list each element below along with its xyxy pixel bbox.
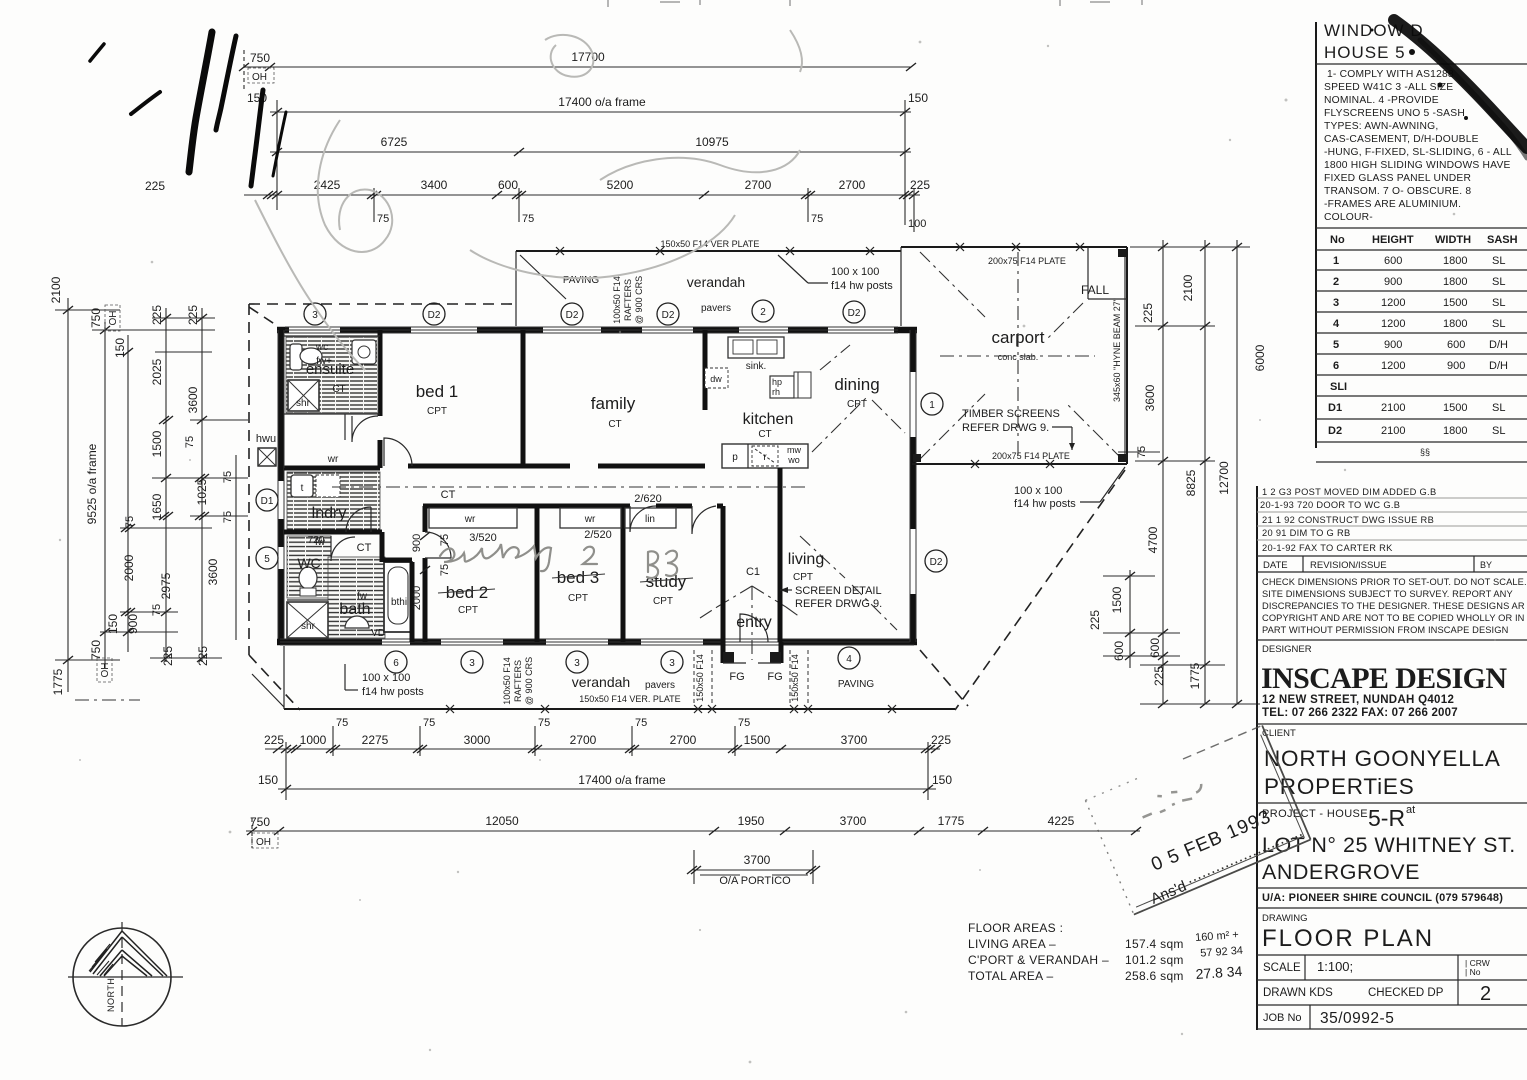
svg-text:lndry: lndry <box>312 505 347 522</box>
svg-text:f14 hw posts: f14 hw posts <box>1014 498 1076 510</box>
svg-text:75: 75 <box>538 717 550 729</box>
svg-text:@ 900 CRS: @ 900 CRS <box>634 276 644 324</box>
svg-text:O/A PORTICO: O/A PORTICO <box>719 875 791 887</box>
svg-text:750: 750 <box>250 51 270 65</box>
svg-text:75: 75 <box>439 564 451 576</box>
svg-text:SL: SL <box>1492 402 1505 414</box>
svg-text:| No: | No <box>1465 967 1481 977</box>
svg-text:160 m² +: 160 m² + <box>1195 929 1239 944</box>
svg-text:COPYRIGHT AND ARE NOT TO BE CO: COPYRIGHT AND ARE NOT TO BE COPIED WHOLL… <box>1262 613 1525 623</box>
svg-text:6: 6 <box>393 658 399 669</box>
svg-text:1- COMPLY WITH AS1288: 1- COMPLY WITH AS1288 <box>1327 69 1454 80</box>
svg-text:C'PORT & VERANDAH –: C'PORT & VERANDAH – <box>968 953 1109 967</box>
svg-text:150: 150 <box>258 773 278 787</box>
svg-text:20-1-93 720 DOOR TO WC: 20-1-93 720 DOOR TO WC G.B <box>1260 500 1400 510</box>
svg-text:1500: 1500 <box>150 430 164 457</box>
svg-text:12700: 12700 <box>1217 461 1231 495</box>
svg-text:SASH: SASH <box>1487 234 1518 246</box>
svg-text:2/520: 2/520 <box>584 529 612 541</box>
svg-text:SL: SL <box>1492 425 1505 437</box>
svg-text:10975: 10975 <box>695 135 729 149</box>
svg-text:bath: bath <box>339 601 370 618</box>
svg-text:5: 5 <box>264 554 270 565</box>
svg-text:lin: lin <box>645 514 655 525</box>
svg-text:FALL: FALL <box>1081 283 1109 297</box>
svg-text:3600: 3600 <box>1143 384 1157 411</box>
svg-text:1500: 1500 <box>744 733 771 747</box>
svg-text:SL: SL <box>1492 297 1505 309</box>
svg-text:t: t <box>301 483 304 494</box>
svg-text:CT: CT <box>332 384 345 395</box>
svg-text:600: 600 <box>1447 339 1465 351</box>
svg-text:hp: hp <box>772 377 782 387</box>
svg-text:wr: wr <box>464 514 476 525</box>
svg-text:shr: shr <box>301 621 316 632</box>
svg-text:4: 4 <box>1333 318 1340 330</box>
svg-text:fw+: fw+ <box>316 356 332 367</box>
svg-text:@ 900 CRS: @ 900 CRS <box>524 657 534 705</box>
svg-text:225: 225 <box>145 179 165 193</box>
svg-text:75: 75 <box>423 717 435 729</box>
svg-text:Ans'd: Ans'd <box>1148 878 1189 908</box>
svg-text:kitchen: kitchen <box>743 411 794 428</box>
svg-text:CPT: CPT <box>847 399 867 410</box>
svg-text:1200: 1200 <box>1381 318 1405 330</box>
svg-text:1800: 1800 <box>1443 255 1467 267</box>
svg-text:-HUNG, F-FIXED, SL-SLIDING, 6: -HUNG, F-FIXED, SL-SLIDING, 6 - ALL <box>1324 147 1512 158</box>
svg-text:mw: mw <box>787 445 801 455</box>
svg-text:wc: wc <box>315 342 328 353</box>
svg-text:CPT: CPT <box>653 596 673 607</box>
svg-text:100x50 F14: 100x50 F14 <box>502 657 512 705</box>
svg-text:3700: 3700 <box>744 853 771 867</box>
svg-text:100 x 100: 100 x 100 <box>831 266 879 278</box>
svg-text:3/520: 3/520 <box>469 532 497 544</box>
svg-text:150: 150 <box>113 338 127 358</box>
svg-text:PART WITHOUT PERMISSION FROM: PART WITHOUT PERMISSION FROM INSCAPE DES… <box>1262 625 1508 635</box>
svg-text:3700: 3700 <box>840 814 867 828</box>
svg-text:258.6 sqm: 258.6 sqm <box>1125 969 1184 983</box>
svg-text:150x50 F14 VER. PLATE: 150x50 F14 VER. PLATE <box>579 694 680 704</box>
svg-text:150x50 F14: 150x50 F14 <box>695 654 705 702</box>
svg-text:3400: 3400 <box>421 178 448 192</box>
svg-text:225: 225 <box>196 646 210 666</box>
svg-text:20-1-92 FAX TO CARTER: 20-1-92 FAX TO CARTER RK <box>1262 543 1393 553</box>
svg-text:2100: 2100 <box>1381 402 1405 414</box>
svg-text:SL: SL <box>1492 318 1505 330</box>
svg-text:1 2 G3 POST MOVED DIM ADDED: 1 2 G3 POST MOVED DIM ADDED G.B <box>1262 487 1436 497</box>
svg-text:family: family <box>591 394 636 413</box>
svg-text:D1: D1 <box>261 496 274 507</box>
svg-text:-FRAMES ARE ALUMINIUM.: -FRAMES ARE ALUMINIUM. <box>1324 199 1461 210</box>
svg-text:HEIGHT: HEIGHT <box>1372 234 1414 246</box>
svg-text:SLI: SLI <box>1330 381 1347 393</box>
svg-text:at: at <box>1406 804 1415 816</box>
svg-text:2700: 2700 <box>570 733 597 747</box>
svg-text:sink.: sink. <box>746 361 767 372</box>
svg-text:225: 225 <box>1141 303 1155 323</box>
svg-text:verandah: verandah <box>687 274 745 290</box>
svg-text:HOUSE 5: HOUSE 5 <box>1324 43 1406 62</box>
svg-text:D2: D2 <box>930 557 943 568</box>
svg-text:1800: 1800 <box>1443 425 1467 437</box>
svg-text:DRAWN KDS: DRAWN KDS <box>1263 987 1333 999</box>
svg-text:verandah: verandah <box>572 674 630 690</box>
svg-text:LIVING AREA –: LIVING AREA – <box>968 937 1056 951</box>
svg-text:1800 HIGH SLIDING WINDOWS HAV: 1800 HIGH SLIDING WINDOWS HAVE <box>1324 160 1511 171</box>
svg-text:6: 6 <box>1333 360 1339 372</box>
svg-text:3700: 3700 <box>841 733 868 747</box>
svg-text:pavers: pavers <box>645 680 675 691</box>
svg-text:U/A: PIONEER SHIRE COUNCIL (07: U/A: PIONEER SHIRE COUNCIL (079 579648) <box>1262 892 1503 904</box>
svg-text:TYPES: AWN-AWNING,: TYPES: AWN-AWNING, <box>1324 121 1438 132</box>
svg-text:21 1 92 CONSTRUCT DWG ISSUE: 21 1 92 CONSTRUCT DWG ISSUE RB <box>1262 515 1434 525</box>
svg-text:900: 900 <box>1447 360 1465 372</box>
svg-text:600: 600 <box>1112 641 1126 661</box>
svg-text:D2: D2 <box>662 310 675 321</box>
svg-text:OH: OH <box>252 72 267 83</box>
svg-text:CPT: CPT <box>793 572 813 583</box>
svg-text:225: 225 <box>931 733 951 747</box>
svg-text:8825: 8825 <box>1184 469 1198 496</box>
svg-text:3600: 3600 <box>186 386 200 413</box>
svg-text:6000: 6000 <box>1253 344 1267 371</box>
svg-text:100 x 100: 100 x 100 <box>362 672 410 684</box>
svg-text:fw: fw <box>357 591 368 602</box>
svg-text:D1: D1 <box>1328 402 1342 414</box>
svg-text:DATE: DATE <box>1263 560 1288 571</box>
svg-text:2000: 2000 <box>122 554 136 581</box>
svg-text:entry: entry <box>736 614 772 631</box>
svg-text:CHECK DIMENSIONS PRIOR TO SET-: CHECK DIMENSIONS PRIOR TO SET-OUT. DO NO… <box>1262 577 1527 587</box>
svg-text:900: 900 <box>1384 339 1402 351</box>
svg-text:9525 o/a frame: 9525 o/a frame <box>85 443 99 524</box>
svg-text:1025: 1025 <box>195 478 209 505</box>
svg-text:D2: D2 <box>848 308 861 319</box>
svg-text:17400 o/a frame: 17400 o/a frame <box>558 95 646 109</box>
svg-text:2000: 2000 <box>411 586 423 610</box>
svg-text:225: 225 <box>1088 610 1102 630</box>
svg-text:D/H: D/H <box>1489 360 1508 372</box>
svg-text:REFER DRWG 9.: REFER DRWG 9. <box>795 598 882 610</box>
svg-text:BY: BY <box>1480 560 1492 570</box>
svg-text:SPEED W41C 3 -ALL SIZE: SPEED W41C 3 -ALL SIZE <box>1324 82 1453 93</box>
svg-text:17700: 17700 <box>571 50 605 64</box>
svg-text:NOMINAL. 4 -PROVIDE: NOMINAL. 4 -PROVIDE <box>1324 95 1439 106</box>
svg-text:2: 2 <box>760 307 766 318</box>
svg-text:225: 225 <box>1152 666 1166 686</box>
svg-text:75: 75 <box>1136 446 1148 458</box>
svg-text:PAVING: PAVING <box>563 275 600 286</box>
svg-text:WIDTH: WIDTH <box>1435 234 1471 246</box>
svg-text:FLOOR PLAN: FLOOR PLAN <box>1262 925 1434 952</box>
svg-text:CT: CT <box>441 489 456 501</box>
svg-text:COLOUR-: COLOUR- <box>1324 212 1373 223</box>
svg-text:150x50 F14: 150x50 F14 <box>790 654 800 702</box>
svg-text:100x50 F14: 100x50 F14 <box>612 276 622 324</box>
svg-text:RAFTERS: RAFTERS <box>623 279 633 321</box>
svg-text:225: 225 <box>264 733 284 747</box>
svg-text:1: 1 <box>929 400 935 411</box>
svg-text:75: 75 <box>635 717 647 729</box>
svg-text:2700: 2700 <box>670 733 697 747</box>
svg-text:2025: 2025 <box>150 358 164 385</box>
svg-text:150: 150 <box>932 773 952 787</box>
svg-text:75: 75 <box>811 213 823 225</box>
svg-text:2100: 2100 <box>49 276 63 303</box>
svg-text:100 x 100: 100 x 100 <box>1014 485 1062 497</box>
svg-text:D2: D2 <box>1328 425 1342 437</box>
svg-text:200x75 F14 PLATE: 200x75 F14 PLATE <box>992 451 1070 461</box>
svg-text:750: 750 <box>250 815 270 829</box>
svg-text:225: 225 <box>150 305 164 325</box>
svg-text:2: 2 <box>1333 276 1339 288</box>
svg-text:75: 75 <box>377 213 389 225</box>
svg-text:900: 900 <box>411 534 423 552</box>
svg-text:4: 4 <box>846 654 852 665</box>
svg-text:75: 75 <box>222 511 234 523</box>
svg-text:4225: 4225 <box>1048 814 1075 828</box>
svg-text:PROJECT - HOUSE: PROJECT - HOUSE <box>1262 808 1368 820</box>
svg-text:75: 75 <box>439 534 451 546</box>
svg-text:pavers: pavers <box>701 303 731 314</box>
svg-text:FG: FG <box>767 671 782 683</box>
svg-text:1500: 1500 <box>1110 586 1124 613</box>
svg-text:1650: 1650 <box>150 493 164 520</box>
svg-text:DRAWING: DRAWING <box>1262 913 1308 924</box>
svg-text:f14 hw posts: f14 hw posts <box>362 686 424 698</box>
svg-text:RAFTERS: RAFTERS <box>513 660 523 702</box>
svg-text:75: 75 <box>151 604 163 616</box>
svg-text:3: 3 <box>469 658 475 669</box>
svg-text:2100: 2100 <box>1181 274 1195 301</box>
svg-text:D2: D2 <box>428 310 441 321</box>
svg-text:150: 150 <box>106 614 120 634</box>
svg-text:wr: wr <box>584 514 596 525</box>
svg-text:900: 900 <box>126 614 140 634</box>
svg-text:REVISION/ISSUE: REVISION/ISSUE <box>1310 560 1387 571</box>
svg-text:1800: 1800 <box>1443 318 1467 330</box>
svg-text:CT: CT <box>608 419 621 430</box>
svg-text:TOTAL AREA –: TOTAL AREA – <box>968 969 1053 983</box>
svg-text:CT: CT <box>357 542 372 554</box>
svg-text:600: 600 <box>1148 638 1162 658</box>
svg-text:CAS-CASEMENT, D/H-DOUBLE: CAS-CASEMENT, D/H-DOUBLE <box>1324 134 1479 145</box>
svg-text:225: 225 <box>910 178 930 192</box>
svg-text:75: 75 <box>336 717 348 729</box>
svg-text:1775: 1775 <box>938 814 965 828</box>
svg-text:bthi: bthi <box>391 597 407 608</box>
svg-text:3: 3 <box>1333 297 1339 309</box>
svg-text:1800: 1800 <box>1443 276 1467 288</box>
svg-text:3: 3 <box>574 658 580 669</box>
svg-text:0 5 FEB 1993: 0 5 FEB 1993 <box>1148 806 1274 875</box>
svg-text:5: 5 <box>1333 339 1339 351</box>
svg-text:100: 100 <box>908 218 926 230</box>
svg-text:12 NEW STREET, NUNDAH Q4012: 12 NEW STREET, NUNDAH Q4012 <box>1262 694 1454 706</box>
svg-text:OH: OH <box>256 837 271 848</box>
svg-text:CHECKED DP: CHECKED DP <box>1368 987 1444 999</box>
svg-text:DESIGNER: DESIGNER <box>1262 644 1312 655</box>
svg-text:TRANSOM. 7 O- OBSCURE. 8: TRANSOM. 7 O- OBSCURE. 8 <box>1324 186 1471 197</box>
svg-text:2275: 2275 <box>362 733 389 747</box>
svg-text:TEL: 07 266 2322 FAX: 07 266: TEL: 07 266 2322 FAX: 07 266 2007 <box>1262 707 1458 719</box>
svg-text:TIMBER SCREENS: TIMBER SCREENS <box>962 408 1060 420</box>
svg-text:1775: 1775 <box>1188 662 1202 689</box>
svg-text:200x75 F14 PLATE: 200x75 F14 PLATE <box>988 256 1066 266</box>
svg-text:REFER DRWG 9.: REFER DRWG 9. <box>962 422 1049 434</box>
svg-text:living: living <box>788 551 824 568</box>
svg-text:1:100;: 1:100; <box>1317 959 1353 974</box>
svg-text:1200: 1200 <box>1381 360 1405 372</box>
svg-text:900: 900 <box>1384 276 1402 288</box>
svg-text:CPT: CPT <box>458 605 478 616</box>
svg-text:3000: 3000 <box>464 733 491 747</box>
svg-text:5-R: 5-R <box>1368 805 1405 831</box>
svg-text:750: 750 <box>89 640 103 660</box>
svg-text:FLYSCREENS UNO 5 -SASH: FLYSCREENS UNO 5 -SASH <box>1324 108 1465 119</box>
svg-text:D/H: D/H <box>1489 339 1508 351</box>
svg-text:157.4 sqm: 157.4 sqm <box>1125 937 1184 951</box>
svg-text:2: 2 <box>1480 983 1491 1005</box>
svg-text:dw: dw <box>710 374 722 384</box>
svg-text:2700: 2700 <box>745 178 772 192</box>
svg-text:rh: rh <box>772 387 780 397</box>
svg-text:WC: WC <box>297 555 320 571</box>
svg-text:600: 600 <box>498 178 518 192</box>
svg-text:bed 1: bed 1 <box>416 382 459 401</box>
svg-text:75: 75 <box>184 436 196 448</box>
svg-text:No: No <box>1330 234 1345 246</box>
svg-text:3: 3 <box>669 658 675 669</box>
svg-text:NORTH GOONYELLA: NORTH GOONYELLA <box>1264 746 1501 771</box>
svg-text:75: 75 <box>124 516 136 528</box>
svg-text:1200: 1200 <box>1381 297 1405 309</box>
svg-text:57 92 34: 57 92 34 <box>1200 945 1244 960</box>
svg-text:2975: 2975 <box>159 572 173 599</box>
svg-text:ANDERGROVE: ANDERGROVE <box>1262 860 1420 884</box>
svg-text:150: 150 <box>908 91 928 105</box>
svg-text:2/620: 2/620 <box>634 493 662 505</box>
svg-text:345x60 "HYNE BEAM 27": 345x60 "HYNE BEAM 27" <box>1112 298 1122 402</box>
svg-text:720: 720 <box>308 535 325 546</box>
svg-text:SL: SL <box>1492 276 1505 288</box>
svg-text:4700: 4700 <box>1146 526 1160 553</box>
svg-text:INSCAPE DESIGN: INSCAPE DESIGN <box>1261 662 1507 695</box>
svg-text:1: 1 <box>1333 255 1339 267</box>
svg-text:p: p <box>732 452 738 463</box>
svg-text:wo: wo <box>787 455 800 465</box>
svg-text:SCREEN DETAIL: SCREEN DETAIL <box>795 585 882 597</box>
svg-text:CPT: CPT <box>427 406 447 417</box>
svg-text:NORTH: NORTH <box>106 978 116 1012</box>
svg-text:101.2 sqm: 101.2 sqm <box>1125 953 1184 967</box>
svg-text:225: 225 <box>161 646 175 666</box>
svg-text:6725: 6725 <box>381 135 408 149</box>
svg-text:1500: 1500 <box>1443 402 1467 414</box>
svg-text:f14 hw posts: f14 hw posts <box>831 280 893 292</box>
svg-text:17400 o/a frame: 17400 o/a frame <box>578 773 666 787</box>
svg-text:DISCREPANCIES TO THE DESIGNER.: DISCREPANCIES TO THE DESIGNER. THESE DES… <box>1262 601 1525 611</box>
svg-text:1000: 1000 <box>300 733 327 747</box>
svg-text:35/0992-5: 35/0992-5 <box>1320 1010 1394 1027</box>
svg-text:225: 225 <box>186 305 200 325</box>
svg-text:dining: dining <box>834 375 879 394</box>
svg-text:600: 600 <box>1384 255 1402 267</box>
svg-text:OH: OH <box>108 311 119 326</box>
svg-text:CT: CT <box>758 429 771 440</box>
svg-text:750: 750 <box>89 308 103 328</box>
svg-text:JOB No: JOB No <box>1263 1012 1302 1024</box>
svg-text:2100: 2100 <box>1381 425 1405 437</box>
svg-text:D2: D2 <box>566 310 579 321</box>
svg-text:C1: C1 <box>746 566 760 578</box>
svg-text:§§: §§ <box>1420 447 1430 457</box>
svg-text:2700: 2700 <box>839 178 866 192</box>
svg-text:27.8 34: 27.8 34 <box>1195 963 1243 982</box>
svg-text:1950: 1950 <box>738 814 765 828</box>
svg-text:VD: VD <box>371 628 385 639</box>
svg-text:3600: 3600 <box>206 558 220 585</box>
svg-text:hwu: hwu <box>256 433 276 445</box>
svg-text:FG: FG <box>729 671 744 683</box>
svg-text:CPT: CPT <box>568 593 588 604</box>
svg-text:1500: 1500 <box>1443 297 1467 309</box>
svg-text:20 91 DIM TO G: 20 91 DIM TO G RB <box>1262 528 1350 538</box>
svg-text:1775: 1775 <box>51 668 65 695</box>
svg-text:OH: OH <box>100 663 111 678</box>
svg-text:SITE DIMENSIONS SUBJECT TO SUR: SITE DIMENSIONS SUBJECT TO SURVEY. REPOR… <box>1262 589 1513 599</box>
svg-text:wr: wr <box>327 454 339 465</box>
svg-text:FLOOR AREAS :: FLOOR AREAS : <box>968 921 1063 935</box>
svg-text:SL: SL <box>1492 255 1505 267</box>
svg-text:shr: shr <box>296 398 311 409</box>
svg-text:12050: 12050 <box>485 814 519 828</box>
svg-text:75: 75 <box>222 471 234 483</box>
svg-text:PAVING: PAVING <box>838 679 875 690</box>
svg-text:SCALE: SCALE <box>1263 962 1301 974</box>
svg-text:FIXED GLASS PANEL UNDER: FIXED GLASS PANEL UNDER <box>1324 173 1471 184</box>
svg-text:75: 75 <box>738 717 750 729</box>
svg-text:75: 75 <box>522 213 534 225</box>
svg-text:5200: 5200 <box>607 178 634 192</box>
